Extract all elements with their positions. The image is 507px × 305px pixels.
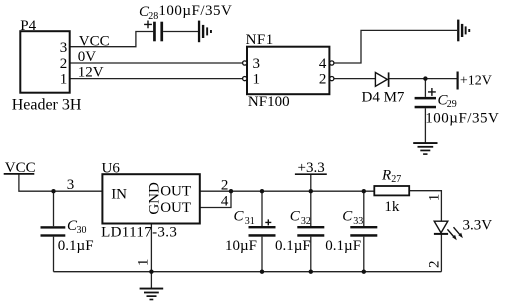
svg-text:1: 1 bbox=[135, 259, 151, 267]
svg-text:+3.3: +3.3 bbox=[298, 160, 325, 176]
svg-text:0.1µF: 0.1µF bbox=[275, 238, 311, 254]
svg-text:4: 4 bbox=[221, 193, 229, 209]
svg-text:27: 27 bbox=[391, 174, 401, 185]
svg-text:1k: 1k bbox=[384, 199, 400, 215]
svg-text:2: 2 bbox=[221, 177, 229, 193]
svg-text:31: 31 bbox=[245, 216, 255, 227]
svg-text:0.1µF: 0.1µF bbox=[58, 238, 94, 254]
svg-text:VCC: VCC bbox=[79, 33, 110, 49]
svg-text:28: 28 bbox=[148, 11, 158, 22]
svg-text:2: 2 bbox=[60, 56, 68, 72]
svg-text:32: 32 bbox=[301, 216, 311, 227]
svg-text:C: C bbox=[234, 209, 245, 225]
svg-text:100µF/35V: 100µF/35V bbox=[158, 3, 232, 19]
svg-text:+12V: +12V bbox=[460, 74, 492, 89]
svg-text:3: 3 bbox=[67, 177, 75, 193]
svg-text:1: 1 bbox=[426, 194, 442, 202]
svg-text:VCC: VCC bbox=[5, 160, 36, 176]
svg-text:GND: GND bbox=[146, 182, 162, 215]
svg-text:C: C bbox=[290, 209, 301, 225]
svg-text:1: 1 bbox=[60, 72, 68, 88]
svg-text:NF100: NF100 bbox=[248, 94, 290, 110]
svg-text:30: 30 bbox=[77, 225, 87, 236]
svg-text:R: R bbox=[381, 167, 391, 183]
svg-text:100µF/35V: 100µF/35V bbox=[425, 110, 499, 126]
svg-text:33: 33 bbox=[353, 216, 363, 227]
svg-text:4: 4 bbox=[319, 56, 327, 72]
svg-text:2: 2 bbox=[426, 260, 442, 268]
svg-text:IN: IN bbox=[111, 186, 127, 202]
svg-text:2: 2 bbox=[319, 72, 327, 88]
svg-text:NF1: NF1 bbox=[246, 32, 274, 48]
svg-text:3.3V: 3.3V bbox=[463, 217, 493, 233]
svg-text:29: 29 bbox=[447, 99, 457, 110]
svg-text:10µF: 10µF bbox=[225, 238, 257, 254]
svg-text:0V: 0V bbox=[78, 49, 97, 65]
svg-text:12V: 12V bbox=[78, 64, 104, 80]
svg-text:1: 1 bbox=[253, 72, 261, 88]
svg-text:C: C bbox=[342, 209, 353, 225]
svg-text:3: 3 bbox=[253, 56, 261, 72]
svg-text:Header 3H: Header 3H bbox=[12, 97, 82, 114]
svg-text:D4 M7: D4 M7 bbox=[362, 90, 405, 106]
svg-text:LD1117-3.3: LD1117-3.3 bbox=[101, 225, 177, 241]
svg-text:U6: U6 bbox=[102, 160, 121, 176]
svg-text:3: 3 bbox=[60, 40, 68, 56]
svg-text:0.1µF: 0.1µF bbox=[325, 238, 361, 254]
svg-text:OUT: OUT bbox=[160, 184, 191, 200]
svg-text:P4: P4 bbox=[20, 18, 36, 34]
svg-text:OUT: OUT bbox=[160, 200, 191, 216]
